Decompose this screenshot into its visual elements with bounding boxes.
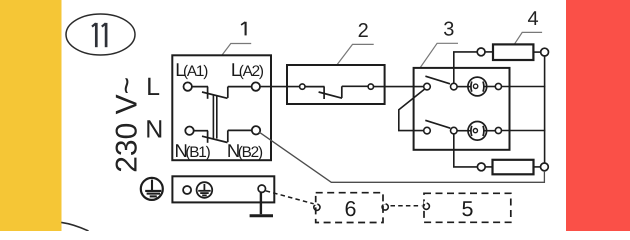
svg-text:2: 2 <box>358 20 369 42</box>
indicator unit box 3 <box>414 68 510 150</box>
box 3 bottom switch blade <box>425 120 450 128</box>
terminal L(A1) <box>184 82 192 90</box>
box 3 bottom middle terminal <box>451 127 458 134</box>
terminal N(B1) <box>185 127 193 135</box>
svg-text:N(B1): N(B1) <box>175 140 211 161</box>
PE box earth symbol <box>197 182 213 198</box>
wire <box>533 51 540 53</box>
label 4 <box>527 8 538 30</box>
svg-text:N(B2): N(B2) <box>227 140 263 161</box>
leader line label 1 <box>222 44 251 56</box>
svg-text:L: L <box>146 73 160 101</box>
wire <box>485 166 492 168</box>
mechanical link between poles <box>213 95 216 138</box>
resistor 4 right terminal <box>541 48 549 56</box>
svg-text:230 V~: 230 V~ <box>111 77 144 173</box>
label 5 <box>462 197 474 221</box>
label N (neutral) <box>145 115 163 143</box>
terminal label N(B2) <box>227 140 263 161</box>
svg-text:L(A2): L(A2) <box>231 59 264 80</box>
box 5 left hook terminal <box>423 203 429 209</box>
wire to top glow lamp <box>457 86 471 88</box>
sensor box 6 (dashed) <box>316 193 383 223</box>
box 2 contact <box>305 86 368 99</box>
resistor 4 body <box>493 44 533 60</box>
wire top row to right bus <box>502 86 546 88</box>
earth electrode conductor <box>260 192 262 214</box>
wire lamp to right terminal (bottom row) <box>484 130 496 132</box>
svg-text:L(A1): L(A1) <box>175 59 208 80</box>
external earth symbol (circled) <box>141 178 163 200</box>
label 2 <box>358 20 369 42</box>
label 3 <box>443 18 454 40</box>
leader line label 3 <box>420 43 458 67</box>
label 1 <box>241 22 246 36</box>
dashed link PE terminal to sensor 6 <box>266 191 314 204</box>
wire middle terminal up to resistor 4 branch <box>454 52 477 83</box>
lower resistor left terminal <box>477 163 485 171</box>
box 2 right terminal <box>368 84 373 89</box>
wire branch to bottom row (jog outside box 3) <box>399 89 425 131</box>
svg-text:4: 4 <box>527 8 538 30</box>
box 3 bottom row input terminal <box>424 127 431 134</box>
protective earth terminal box <box>172 176 274 202</box>
svg-text:N: N <box>145 115 163 143</box>
svg-text:3: 3 <box>443 18 454 40</box>
terminal label L(A2) <box>231 59 264 80</box>
label L (line) <box>146 73 160 101</box>
contact L pole (box 1 top contact) <box>192 87 252 99</box>
contact N pole (box 1 bottom contact) <box>194 130 252 142</box>
lower resistor body <box>493 160 534 175</box>
terminal label L(A1) <box>175 59 208 80</box>
PE box right terminal <box>258 185 265 192</box>
wire lamp to right terminal (top row) <box>484 86 496 88</box>
box 3 top row input terminal <box>424 83 431 90</box>
box 6 right hook terminal <box>382 204 388 210</box>
wire L(A2) to box 2 <box>260 86 300 88</box>
wire bottom middle terminal down to lower resistor <box>454 134 478 167</box>
wire <box>485 51 493 53</box>
wire <box>534 166 541 168</box>
box 6 left hook terminal <box>314 204 320 210</box>
neutral return wire from N(B2) to bus bottom <box>259 132 544 182</box>
label 230 V~ <box>111 77 144 173</box>
glow lamp bottom <box>468 122 487 141</box>
PE box plain terminal <box>183 186 191 194</box>
svg-text:6: 6 <box>345 197 357 221</box>
box 3 bottom row output terminal <box>495 127 501 133</box>
box 2 left terminal <box>300 84 305 89</box>
box 3 top switch blade <box>425 76 450 84</box>
terminal L(A2) <box>252 82 260 90</box>
switch box 2 (control contact) <box>287 65 385 104</box>
right vertical bus <box>544 56 546 163</box>
glow lamp top <box>468 77 487 96</box>
leader line label 2 <box>337 44 374 64</box>
lower resistor right terminal <box>541 163 549 171</box>
wire bottom row to right bus <box>502 130 546 132</box>
box 3 top row output terminal <box>495 83 501 89</box>
box 3 top middle terminal <box>451 83 458 90</box>
label 6 <box>345 197 357 221</box>
terminal label N(B1) <box>175 140 211 161</box>
dashed link sensor 6 to sensor 5 <box>391 205 422 207</box>
wire box 2 to box 3 top row <box>374 86 424 88</box>
partial bubble of next figure (bottom left) <box>61 222 88 231</box>
figure number 11 bubble <box>66 14 135 55</box>
svg-text:5: 5 <box>462 197 474 221</box>
switch unit box 1 (double-pole switch) <box>172 55 271 160</box>
terminal N(B2) <box>252 126 260 134</box>
leader line label 4 <box>514 32 542 44</box>
sensor box 5 (dashed) <box>424 193 511 222</box>
earth electrode bar <box>250 214 273 217</box>
resistor 4 left terminal <box>477 48 485 56</box>
wire to bottom glow lamp <box>457 130 471 132</box>
